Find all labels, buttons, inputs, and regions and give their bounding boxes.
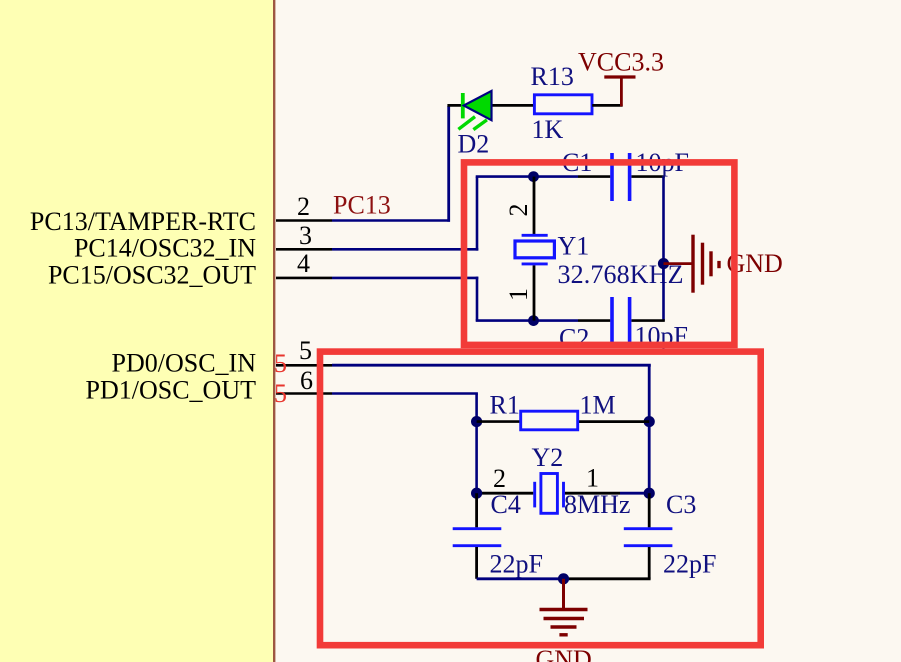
wire pin4 horizontal	[332, 277, 478, 280]
Y2 right stub	[565, 492, 620, 495]
GND2 bar 2	[544, 617, 585, 620]
pin 2 stub	[276, 219, 332, 222]
node dot R1 left	[471, 416, 482, 427]
wire LED to R13	[447, 104, 534, 107]
red highlight box 1 (32.768KHZ crystal)	[464, 162, 734, 345]
svg-text:C4: C4	[491, 490, 521, 519]
wire right vertical (to GND tap)	[662, 177, 665, 321]
wire crystal1 top horizontal	[476, 175, 578, 178]
pin 4 stub	[276, 277, 332, 280]
wire pin4 vertical down	[476, 277, 479, 321]
crystal1: node dot top	[528, 171, 539, 182]
Y2 right wire	[620, 492, 649, 495]
wire PC13 horizontal	[332, 219, 450, 222]
capacitor C3 top plate	[624, 527, 673, 530]
C2 right stub	[632, 319, 665, 322]
GND1 connect line	[664, 262, 692, 265]
capacitor C1 left plate	[610, 153, 614, 201]
svg-text:6: 6	[300, 366, 313, 395]
svg-text:D2: D2	[458, 130, 490, 159]
C3 top wire	[648, 493, 651, 527]
svg-text:PC13: PC13	[333, 191, 391, 220]
svg-text:2: 2	[493, 464, 506, 493]
svg-text:1K: 1K	[532, 115, 564, 144]
svg-text:C3: C3	[666, 490, 696, 519]
svg-text:1M: 1M	[580, 391, 616, 420]
wire PC13 vertical to LED	[447, 106, 450, 222]
capacitor C2 left plate	[610, 297, 614, 345]
crystal1: node dot bottom	[528, 315, 539, 326]
GND2 bar 1	[540, 608, 588, 611]
node dot R1 right	[644, 416, 655, 427]
C4 top wire	[475, 493, 478, 527]
wire pin6 vertical down	[475, 394, 478, 494]
svg-text:2: 2	[297, 192, 310, 221]
pin 5 stub	[276, 364, 332, 367]
node dot GND tap	[658, 258, 669, 269]
svg-text:22pF: 22pF	[490, 550, 543, 579]
svg-text:Y2: Y2	[532, 443, 564, 472]
Y2 left stub	[477, 492, 534, 495]
C4 bottom wire	[475, 547, 478, 579]
svg-text:4: 4	[297, 249, 310, 278]
svg-text:8MHz: 8MHz	[564, 490, 630, 519]
wire crystal1 bottom horizontal	[476, 319, 578, 322]
GND1 bar 3	[709, 251, 712, 276]
LED D2 light slash 2	[473, 120, 487, 130]
svg-text:5: 5	[274, 349, 287, 378]
GND1 bar 2	[701, 243, 704, 285]
Y2 right plate	[562, 482, 565, 508]
bottom wire left (navy)	[477, 577, 564, 580]
Y1 bottom plate	[522, 262, 548, 265]
IC sheet-symbol block (yellow)	[0, 0, 274, 662]
svg-text:1: 1	[504, 288, 533, 301]
C2 left stub	[578, 319, 610, 322]
wire pin3 vertical up	[476, 177, 479, 251]
node dot Y2 right	[644, 488, 655, 499]
Y1 top pin wire	[533, 177, 536, 234]
svg-text:VCC3.3: VCC3.3	[578, 48, 664, 77]
pin 6 stub	[276, 392, 332, 395]
capacitor C3 bottom plate	[624, 544, 673, 547]
node dot Y2 left	[471, 488, 482, 499]
VCC3.3 power bar	[604, 75, 635, 78]
red highlight box 2 (8MHz crystal)	[320, 352, 761, 646]
capacitor C4 top plate	[453, 527, 502, 530]
C1 left stub	[578, 175, 610, 178]
Y1 bottom pin wire	[533, 265, 536, 320]
svg-text:2: 2	[504, 204, 533, 217]
capacitor C2 right plate	[628, 297, 632, 345]
wire pin3 horizontal	[332, 248, 478, 251]
svg-text:PC14/OSC32_IN: PC14/OSC32_IN	[74, 234, 256, 263]
svg-text:1: 1	[586, 464, 599, 493]
svg-text:PD0/OSC_IN: PD0/OSC_IN	[112, 349, 257, 378]
GND1 bar 1	[691, 235, 694, 293]
Y1 top plate	[522, 234, 548, 237]
capacitor C1 right plate	[628, 153, 632, 201]
GND2 bar 3	[551, 625, 577, 628]
wire pin6 horizontal	[332, 392, 478, 395]
R1 left stub	[477, 420, 521, 423]
capacitor C4 bottom plate	[453, 544, 502, 547]
svg-text:R1: R1	[490, 391, 520, 420]
svg-text:22pF: 22pF	[663, 550, 716, 579]
LED D2 cathode bar	[461, 93, 465, 118]
Y2 body	[541, 474, 558, 514]
wire R13 to VCC	[592, 104, 622, 107]
C3 bottom wire	[648, 547, 651, 579]
Y2 left plate	[533, 482, 536, 508]
svg-text:PC13/TAMPER-RTC: PC13/TAMPER-RTC	[30, 207, 256, 236]
VCC3.3 power stem	[620, 77, 623, 106]
C1 right stub	[632, 175, 665, 178]
svg-text:5: 5	[274, 379, 287, 408]
svg-text:PC15/OSC32_OUT: PC15/OSC32_OUT	[48, 261, 256, 290]
node dot GND2	[558, 573, 569, 584]
Y1 body	[515, 241, 554, 258]
resistor R1 body	[521, 411, 578, 430]
R1 right stub	[579, 420, 650, 423]
wire pin5 horizontal	[332, 364, 651, 367]
GND2 bar 4	[559, 633, 567, 636]
resistor R13 body	[534, 95, 592, 114]
bottom wire right (black)	[564, 577, 651, 580]
svg-text:PD1/OSC_OUT: PD1/OSC_OUT	[86, 376, 257, 405]
svg-text:5: 5	[299, 336, 312, 365]
GND1 bar 4	[717, 261, 720, 268]
pin 3 stub	[276, 248, 332, 251]
GND2 stem	[562, 579, 565, 610]
svg-text:R13: R13	[531, 62, 574, 91]
LED D2 triangle	[464, 91, 492, 120]
svg-text:Y1: Y1	[558, 232, 590, 261]
LED D2 light slash 1	[458, 117, 475, 130]
svg-text:3: 3	[299, 221, 312, 250]
wire pin5 vertical down	[648, 365, 651, 493]
